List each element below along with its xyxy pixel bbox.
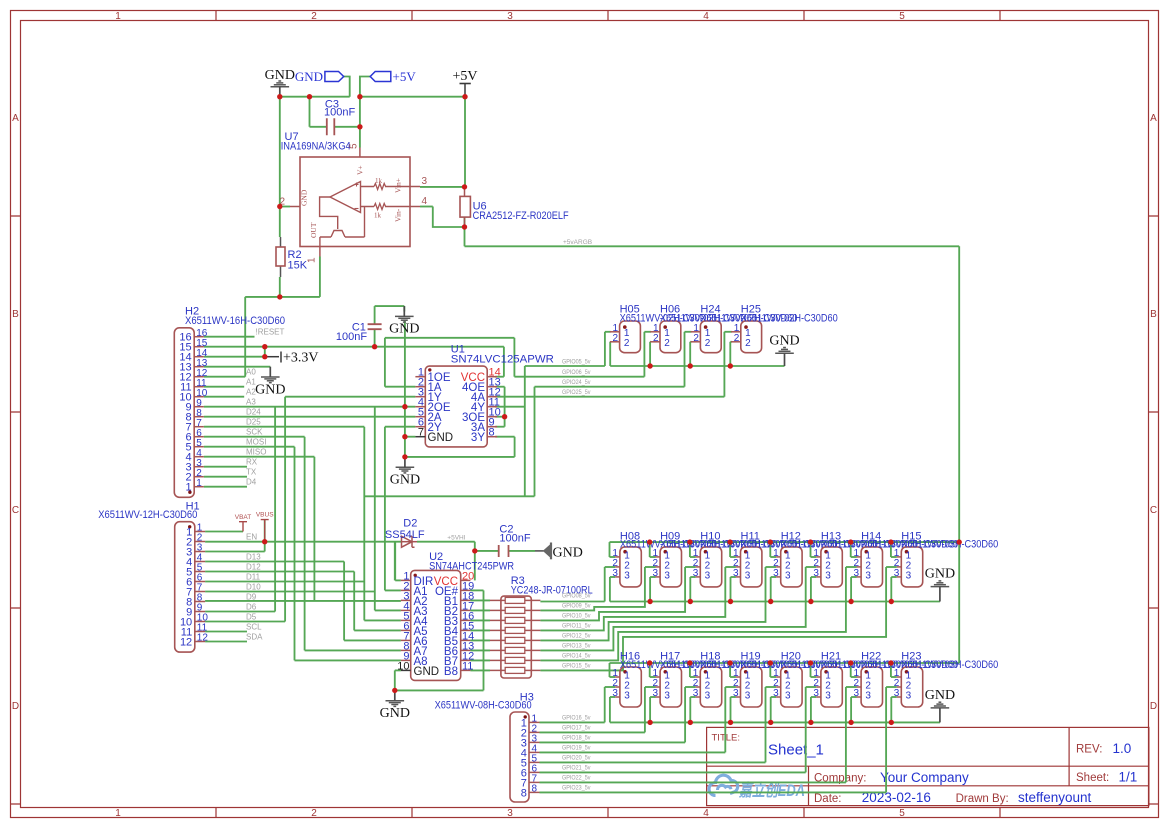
svg-text:GPIO18_5v: GPIO18_5v — [562, 734, 591, 741]
svg-text:4: 4 — [703, 11, 709, 22]
svg-text:8: 8 — [489, 427, 495, 439]
svg-text:5: 5 — [349, 143, 360, 149]
svg-text:GND: GND — [389, 322, 419, 337]
svg-text:C: C — [12, 505, 19, 516]
svg-text:X6511WV-03H-C30D60: X6511WV-03H-C30D60 — [901, 659, 998, 671]
svg-text:GPIO23_5v: GPIO23_5v — [562, 784, 591, 791]
svg-text:D: D — [1150, 701, 1157, 712]
svg-text:GPIO21_5v: GPIO21_5v — [562, 764, 591, 771]
svg-text:3: 3 — [825, 571, 831, 582]
svg-text:2: 2 — [311, 11, 317, 22]
svg-text:8: 8 — [532, 784, 538, 795]
svg-text:GPIO12_5v: GPIO12_5v — [562, 633, 591, 640]
svg-text:100nF: 100nF — [336, 331, 367, 343]
svg-text:GND: GND — [553, 546, 583, 561]
svg-text:GPIO15_5v: GPIO15_5v — [562, 663, 591, 670]
svg-text:3: 3 — [894, 688, 900, 699]
svg-text:GPIO19_5v: GPIO19_5v — [562, 744, 591, 751]
svg-text:GND: GND — [414, 666, 440, 678]
svg-text:A: A — [12, 113, 19, 124]
svg-text:12: 12 — [197, 633, 209, 644]
svg-text:3: 3 — [773, 568, 779, 579]
svg-text:3: 3 — [653, 568, 659, 579]
svg-text:GPIO16_5v: GPIO16_5v — [562, 714, 591, 721]
svg-text:10: 10 — [397, 660, 409, 672]
svg-text:Vin-: Vin- — [394, 208, 403, 222]
svg-text:2: 2 — [613, 333, 619, 344]
svg-text:+3.3V: +3.3V — [283, 351, 319, 366]
svg-text:100nF: 100nF — [324, 107, 355, 119]
svg-text:Sheet_1: Sheet_1 — [768, 742, 824, 759]
svg-text:3: 3 — [612, 688, 618, 699]
svg-text:VBAT: VBAT — [235, 514, 252, 521]
svg-text:GPIO14_5v: GPIO14_5v — [562, 653, 591, 660]
svg-text:CRA2512-FZ-R020ELF: CRA2512-FZ-R020ELF — [473, 210, 569, 222]
svg-text:Date:: Date: — [814, 793, 842, 805]
svg-text:7: 7 — [418, 427, 424, 439]
svg-text:2: 2 — [653, 333, 659, 344]
svg-text:3: 3 — [733, 568, 739, 579]
svg-text:3: 3 — [693, 688, 699, 699]
svg-text:Drawn By:: Drawn By: — [956, 793, 1009, 805]
svg-text:3: 3 — [624, 691, 630, 702]
svg-text:D: D — [12, 701, 19, 712]
svg-text:GPIO20_5v: GPIO20_5v — [562, 754, 591, 761]
svg-text:1: 1 — [185, 482, 191, 494]
svg-text:Vin+: Vin+ — [394, 178, 403, 193]
svg-text:GPIO13_5v: GPIO13_5v — [562, 643, 591, 650]
svg-text:3: 3 — [813, 568, 819, 579]
svg-text:GPIO25_5v: GPIO25_5v — [562, 389, 591, 396]
svg-text:1/1: 1/1 — [1119, 769, 1138, 784]
svg-text:1: 1 — [115, 808, 121, 819]
svg-text:GPIO06_5v: GPIO06_5v — [562, 369, 591, 376]
svg-text:1: 1 — [307, 257, 318, 263]
svg-text:X6511WV-08H-C30D60: X6511WV-08H-C30D60 — [435, 700, 532, 712]
svg-text:100nF: 100nF — [499, 533, 530, 545]
svg-text:2: 2 — [693, 333, 699, 344]
svg-text:GPIO17_5v: GPIO17_5v — [562, 724, 591, 731]
svg-text:GND: GND — [925, 567, 955, 582]
svg-text:4: 4 — [703, 808, 709, 819]
svg-text:SS54LF: SS54LF — [385, 529, 425, 541]
svg-text:3: 3 — [705, 571, 711, 582]
svg-text:steffenyount: steffenyount — [1018, 790, 1092, 805]
svg-text:GPIO22_5v: GPIO22_5v — [562, 774, 591, 781]
svg-text:D11: D11 — [246, 573, 261, 582]
svg-text:3: 3 — [894, 568, 900, 579]
svg-text:D25: D25 — [246, 418, 261, 427]
svg-text:5: 5 — [899, 11, 905, 22]
svg-text:3: 3 — [865, 691, 871, 702]
svg-text:GPIO09_5v: GPIO09_5v — [562, 603, 591, 610]
svg-text:TX: TX — [246, 468, 257, 477]
svg-text:GND: GND — [769, 333, 799, 348]
svg-text:3: 3 — [624, 571, 630, 582]
svg-text:GPIO11_5v: GPIO11_5v — [562, 623, 591, 630]
svg-text:1: 1 — [115, 11, 121, 22]
svg-text:2: 2 — [624, 338, 630, 349]
svg-text:SDA: SDA — [246, 633, 263, 642]
svg-text:D4: D4 — [246, 478, 257, 487]
svg-text:X6511WV-02H-C30D60: X6511WV-02H-C30D60 — [741, 313, 838, 325]
svg-text:SCK: SCK — [246, 428, 263, 437]
svg-text:A3: A3 — [246, 398, 256, 407]
svg-text:EN: EN — [246, 533, 257, 542]
svg-text:GPIO05_5v: GPIO05_5v — [562, 359, 591, 366]
svg-text:GND: GND — [255, 382, 285, 397]
svg-text:3: 3 — [825, 691, 831, 702]
svg-text:+5VHI: +5VHI — [447, 535, 465, 542]
svg-text:C: C — [1150, 505, 1157, 516]
svg-text:GND: GND — [925, 688, 955, 703]
svg-text:RX: RX — [246, 458, 258, 467]
svg-text:嘉立创EDA: 嘉立创EDA — [738, 781, 805, 800]
svg-text:3: 3 — [785, 571, 791, 582]
svg-text:3: 3 — [745, 571, 751, 582]
svg-text:3: 3 — [507, 808, 513, 819]
svg-text:B8: B8 — [444, 666, 458, 678]
svg-text:GND: GND — [295, 69, 323, 84]
svg-text:+5V: +5V — [393, 69, 417, 84]
svg-text:3Y: 3Y — [471, 432, 485, 444]
svg-text:GND: GND — [428, 432, 454, 444]
svg-text:D12: D12 — [246, 563, 261, 572]
svg-text:3: 3 — [865, 571, 871, 582]
svg-text:X6511WV-03H-C30D60: X6511WV-03H-C30D60 — [901, 539, 998, 551]
svg-text:B: B — [1150, 309, 1157, 320]
svg-text:Sheet:: Sheet: — [1076, 772, 1109, 784]
svg-text:11: 11 — [462, 660, 473, 672]
svg-text:OUT: OUT — [309, 222, 318, 238]
svg-text:15K: 15K — [288, 260, 308, 272]
svg-text:D9: D9 — [246, 593, 257, 602]
svg-text:SN74LVC125APWR: SN74LVC125APWR — [451, 354, 554, 366]
svg-text:1k: 1k — [374, 212, 382, 220]
svg-text:1: 1 — [196, 478, 202, 489]
svg-text:2: 2 — [705, 338, 711, 349]
svg-text:D2: D2 — [403, 518, 417, 530]
svg-text:3: 3 — [664, 571, 670, 582]
svg-text:MOSI: MOSI — [246, 438, 266, 447]
svg-text:GPIO08_5v: GPIO08_5v — [562, 593, 591, 600]
svg-text:+5vARGB: +5vARGB — [563, 239, 592, 246]
svg-text:3: 3 — [854, 568, 860, 579]
svg-text:3: 3 — [854, 688, 860, 699]
svg-text:1k: 1k — [375, 177, 383, 185]
svg-text:!RESET: !RESET — [256, 328, 285, 337]
svg-text:VBUS: VBUS — [256, 512, 274, 519]
svg-text:A: A — [1150, 113, 1157, 124]
svg-text:V+: V+ — [356, 165, 365, 175]
svg-text:GPIO24_5v: GPIO24_5v — [562, 379, 591, 386]
svg-text:3: 3 — [733, 688, 739, 699]
svg-text:2: 2 — [311, 808, 317, 819]
svg-text:INA169NA/3KG4: INA169NA/3KG4 — [281, 141, 351, 153]
svg-text:GND: GND — [300, 189, 309, 206]
svg-text:3: 3 — [745, 691, 751, 702]
svg-text:3: 3 — [773, 688, 779, 699]
svg-text:4: 4 — [422, 196, 428, 207]
svg-text:D13: D13 — [246, 553, 261, 562]
svg-text:3: 3 — [813, 688, 819, 699]
svg-text:3: 3 — [612, 568, 618, 579]
svg-text:3: 3 — [693, 568, 699, 579]
svg-text:GND: GND — [380, 706, 410, 721]
svg-text:8: 8 — [521, 787, 527, 799]
svg-text:D5: D5 — [246, 613, 257, 622]
svg-text:3: 3 — [653, 688, 659, 699]
svg-text:5: 5 — [899, 808, 905, 819]
svg-text:GPIO10_5v: GPIO10_5v — [562, 613, 591, 620]
svg-text:+5V: +5V — [452, 69, 477, 84]
svg-text:3: 3 — [507, 11, 513, 22]
svg-text:3: 3 — [422, 176, 428, 187]
svg-text:D24: D24 — [246, 408, 261, 417]
svg-text:SN74AHCT245PWR: SN74AHCT245PWR — [429, 561, 514, 573]
svg-text:MISO: MISO — [246, 448, 266, 457]
svg-text:B: B — [12, 309, 19, 320]
svg-text:X6511WV-12H-C30D60: X6511WV-12H-C30D60 — [98, 509, 197, 521]
svg-text:3: 3 — [906, 691, 912, 702]
svg-text:GND: GND — [265, 68, 295, 83]
svg-text:X6511WV-16H-C30D60: X6511WV-16H-C30D60 — [185, 315, 285, 327]
svg-text:2: 2 — [664, 338, 670, 349]
svg-text:A0: A0 — [246, 368, 256, 377]
svg-text:3: 3 — [906, 571, 912, 582]
svg-text:12: 12 — [180, 637, 192, 649]
svg-text:1.0: 1.0 — [1113, 741, 1132, 756]
svg-text:3: 3 — [785, 691, 791, 702]
svg-text:2: 2 — [734, 333, 740, 344]
svg-text:D10: D10 — [246, 583, 261, 592]
svg-text:GND: GND — [390, 473, 420, 488]
svg-text:REV:: REV: — [1076, 744, 1102, 756]
svg-text:Your Company: Your Company — [880, 770, 969, 785]
svg-text:SCL: SCL — [246, 623, 262, 632]
svg-text:3: 3 — [705, 691, 711, 702]
svg-text:2: 2 — [745, 338, 751, 349]
svg-text:D6: D6 — [246, 603, 257, 612]
svg-text:3: 3 — [664, 691, 670, 702]
